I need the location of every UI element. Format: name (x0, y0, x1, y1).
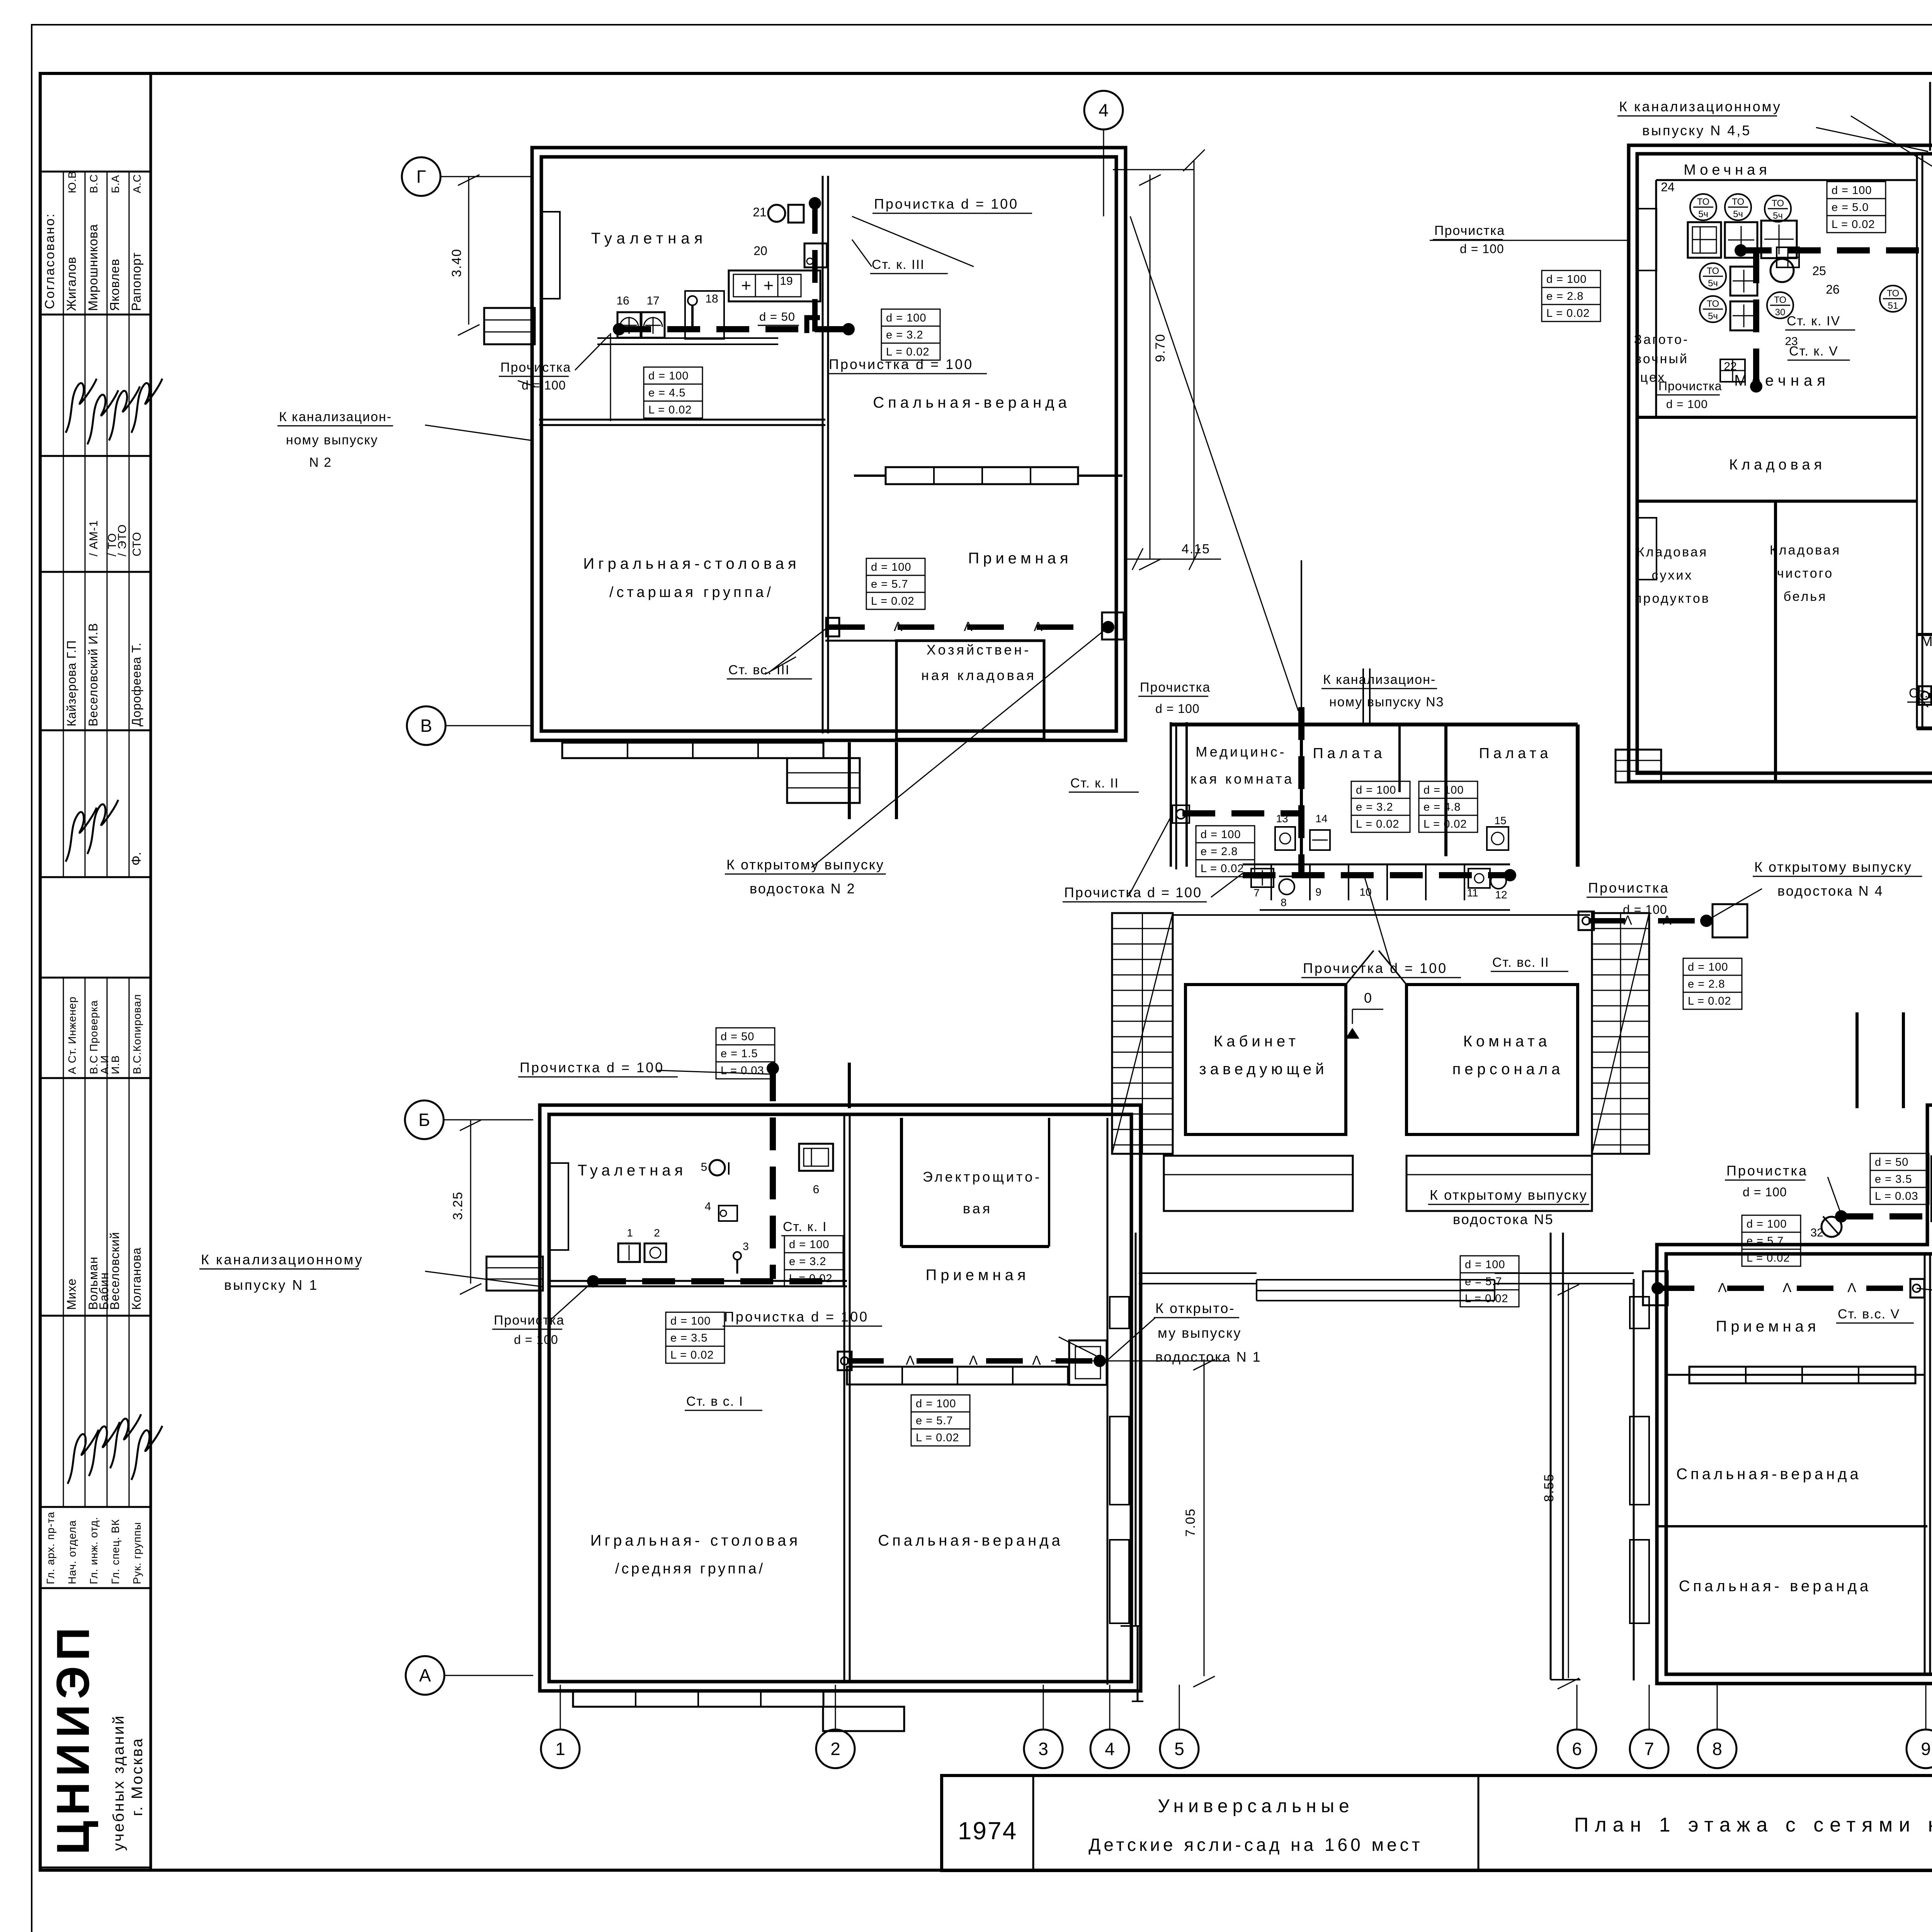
svg-text:e = 4.8: e = 4.8 (1423, 801, 1461, 813)
svg-text:d = 100: d = 100 (1546, 273, 1587, 286)
BR window band wall (1665, 1374, 1925, 1376)
svg-text:9.70: 9.70 (1153, 333, 1168, 362)
svg-text:L = 0.02: L = 0.02 (1546, 307, 1590, 320)
center staff room (1406, 985, 1578, 1134)
svg-text:d = 100: d = 100 (1747, 1218, 1787, 1230)
svg-text:Приемная: Приемная (1716, 1318, 1820, 1335)
TL partition vertical (822, 176, 824, 733)
BL porch left (486, 1257, 543, 1291)
svg-text:6: 6 (813, 1183, 820, 1196)
svg-text:4: 4 (705, 1200, 711, 1213)
svg-text:Λ: Λ (1783, 1281, 1792, 1295)
svg-text:5: 5 (1174, 1739, 1184, 1759)
svg-text:Согласовано:: Согласовано: (43, 213, 57, 309)
svg-text:Λ: Λ (1034, 619, 1043, 634)
svg-text:d = 100: d = 100 (916, 1398, 956, 1410)
svg-text:14: 14 (1315, 813, 1327, 825)
TL storm line St.vs.III (828, 624, 1108, 630)
svg-text:В.С: В.С (88, 174, 100, 193)
TR dry/clean storeroom divider (1774, 501, 1777, 782)
svg-text:d = 100: d = 100 (789, 1238, 830, 1251)
svg-text:e = 3.2: e = 3.2 (886, 329, 923, 341)
svg-text:4: 4 (1105, 1739, 1115, 1759)
svg-text:К открытому выпуску: К открытому выпуску (1430, 1187, 1588, 1203)
svg-text:20: 20 (753, 244, 767, 258)
svg-text:5ч: 5ч (1733, 209, 1743, 219)
svg-text:16: 16 (616, 294, 629, 307)
svg-text:e = 5.7: e = 5.7 (1465, 1276, 1502, 1288)
svg-text:Λ: Λ (964, 619, 973, 634)
svg-text:К канализационному: К канализационному (201, 1252, 364, 1267)
svg-text:Мирошникова: Мирошникова (86, 224, 100, 311)
gallery passage between wings (1257, 1279, 1495, 1281)
svg-text:22: 22 (1724, 360, 1736, 373)
svg-text:В: В (420, 716, 432, 736)
svg-text:L = 0.02: L = 0.02 (1465, 1293, 1509, 1305)
svg-text:d = 100: d = 100 (1666, 398, 1708, 411)
svg-text:2: 2 (654, 1227, 660, 1239)
svg-text:Колганова: Колганова (129, 1247, 143, 1310)
svg-text:L = 0.02: L = 0.02 (916, 1432, 959, 1444)
svg-text:Λ: Λ (1718, 1281, 1727, 1295)
svg-text:учебных зданий: учебных зданий (110, 1714, 127, 1851)
svg-text:L = 0.02: L = 0.02 (871, 595, 915, 607)
svg-text:2: 2 (830, 1739, 840, 1759)
svg-text:19: 19 (780, 275, 793, 287)
pipe data table 4 (1827, 182, 1886, 199)
pipe data table 19 (1742, 1215, 1801, 1232)
equipment circle TO/5ч (1725, 194, 1751, 220)
TR sewer riser left (1753, 250, 1759, 388)
TL window shelf (597, 337, 778, 339)
BL link corridor up (848, 1063, 851, 1108)
svg-text:Прочистка d = 100: Прочистка d = 100 (724, 1309, 869, 1325)
svg-text:ТО: ТО (1697, 197, 1709, 207)
TL bottom window band (562, 743, 823, 758)
svg-text:ному выпуску N3: ному выпуску N3 (1329, 695, 1444, 709)
svg-text:Универсальные: Универсальные (1158, 1796, 1354, 1816)
svg-text:СТО: СТО (131, 532, 143, 556)
svg-text:d = 100: d = 100 (1423, 784, 1464, 796)
BR link corridor up (1855, 1012, 1859, 1108)
svg-text:Медицинс-: Медицинс- (1196, 744, 1286, 760)
svg-text:/ АМ-1: / АМ-1 (87, 520, 100, 556)
bottom title block (942, 1776, 1932, 1871)
svg-text:Кабинет: Кабинет (1214, 1033, 1299, 1050)
center right staircase (1592, 913, 1649, 1154)
svg-text:d = 100: d = 100 (1460, 242, 1504, 256)
equipment circle TO/5ч (1765, 196, 1791, 222)
svg-text:e = 5.7: e = 5.7 (1747, 1235, 1784, 1247)
dim 3.25 left BL (470, 1120, 471, 1284)
svg-text:Веселовский: Веселовский (108, 1232, 122, 1310)
svg-text:Ст. к. I: Ст. к. I (783, 1219, 827, 1234)
svg-text:Спальная- веранда: Спальная- веранда (1679, 1578, 1872, 1595)
leader from prochistka to center riser (1130, 216, 1298, 711)
svg-text:e = 2.8: e = 2.8 (1201, 845, 1238, 858)
svg-text:К канализационному: К канализационному (1619, 99, 1782, 114)
svg-text:7.05: 7.05 (1183, 1508, 1198, 1537)
BL sewer horizontal run (593, 1278, 828, 1284)
svg-text:К канализацион-: К канализацион- (1323, 672, 1436, 687)
svg-text:5ч: 5ч (1708, 278, 1718, 289)
top axis circle 4 (1103, 129, 1104, 216)
svg-text:L = 0.02: L = 0.02 (789, 1272, 833, 1285)
svg-text:И.В: И.В (109, 1055, 121, 1074)
svg-text:Методический кабинет: Методический кабинет (1921, 633, 1932, 649)
TR lotok channel lines (1929, 82, 1931, 151)
svg-text:ТО: ТО (1887, 288, 1899, 299)
svg-text:d = 100: d = 100 (1155, 702, 1200, 716)
dim 8.55 (1568, 1284, 1569, 1678)
svg-text:Комната: Комната (1463, 1033, 1551, 1050)
signatures (squiggles) (66, 379, 97, 433)
svg-text:К канализацион-: К канализацион- (279, 410, 392, 424)
TL bottom porch (787, 758, 860, 803)
svg-text:Кладовая: Кладовая (1729, 457, 1826, 473)
svg-text:Моечная: Моечная (1684, 162, 1771, 178)
BL partition vertical (844, 1115, 845, 1682)
svg-text:6: 6 (1572, 1739, 1582, 1759)
svg-text:Ст. к. III: Ст. к. III (872, 257, 925, 272)
svg-text:г. Москва: г. Москва (129, 1737, 146, 1816)
svg-text:L = 0.02: L = 0.02 (648, 404, 692, 416)
svg-text:План 1 этажа с сетями канализ: План 1 этажа с сетями канализации (1574, 1814, 1932, 1836)
left approval strip table (150, 73, 152, 1870)
svg-text:Прочистка d = 100: Прочистка d = 100 (874, 196, 1019, 212)
svg-text:Ю.В: Ю.В (66, 171, 78, 193)
svg-text:Ф.: Ф. (129, 852, 144, 866)
svg-text:30: 30 (1775, 307, 1786, 318)
bottom axis circles 1-10 (560, 1685, 561, 1730)
center ward partitions (1300, 724, 1303, 856)
svg-text:32: 32 (1810, 1226, 1823, 1239)
TL left wall window niche (541, 212, 560, 299)
svg-text:ТО: ТО (1732, 197, 1744, 207)
svg-text:d = 100: d = 100 (886, 312, 927, 324)
svg-text:N 2: N 2 (309, 455, 332, 470)
TL wc 21 (768, 205, 785, 222)
TR storeroom partition (1637, 500, 1917, 503)
svg-text:L = 0.02: L = 0.02 (1688, 995, 1731, 1007)
svg-text:3.25: 3.25 (451, 1191, 465, 1220)
svg-text:Рапопорт: Рапопорт (129, 252, 143, 311)
svg-text:заведующей: заведующей (1199, 1061, 1328, 1078)
svg-text:Детские ясли-сад на 160 мест: Детские ясли-сад на 160 мест (1088, 1835, 1423, 1855)
svg-text:15: 15 (1494, 815, 1506, 827)
BL electrical room walls (900, 1118, 903, 1247)
svg-text:В.С Проверка: В.С Проверка (88, 1000, 100, 1074)
svg-text:L = 0.03: L = 0.03 (1875, 1190, 1918, 1202)
pipe data table 1 (644, 367, 702, 384)
center sewer riser (1298, 707, 1304, 875)
svg-text:Б.А: Б.А (109, 175, 121, 193)
svg-text:e = 4.5: e = 4.5 (648, 387, 686, 399)
svg-text:ТО: ТО (1772, 198, 1784, 209)
svg-text:Прочистка: Прочистка (1434, 223, 1505, 238)
BL veranda top window band (847, 1367, 1068, 1384)
BR fixtures 32-37 (1821, 1217, 1842, 1237)
svg-text:d = 100: d = 100 (1623, 903, 1667, 917)
svg-text:d = 100: d = 100 (1356, 784, 1396, 796)
svg-text:Кладовая: Кладовая (1770, 543, 1841, 558)
svg-text:выпуску N 4,5: выпуску N 4,5 (1642, 122, 1751, 138)
svg-text:Прочистка: Прочистка (1658, 379, 1722, 393)
center storm line St.vs.II (1588, 918, 1706, 923)
center walkway left (1135, 1233, 1137, 1626)
svg-text:e = 3.2: e = 3.2 (789, 1255, 827, 1268)
svg-text:e = 1.5: e = 1.5 (721, 1048, 758, 1060)
svg-text:Яковлев: Яковлев (107, 259, 122, 311)
TR methodical cabinet walls (1917, 633, 1932, 636)
svg-text:сухих: сухих (1652, 568, 1693, 583)
BL bottom window band (573, 1691, 823, 1707)
TL sewer horizontal run (618, 326, 850, 332)
BL wing outer walls (540, 1105, 1141, 1691)
svg-text:25: 25 (1812, 264, 1826, 278)
center corridor lines (1173, 914, 1590, 916)
svg-text:Хозяйствен-: Хозяйствен- (927, 642, 1031, 658)
TR partition vertical main (1916, 154, 1918, 728)
svg-text:26: 26 (1826, 282, 1840, 296)
center corridor stubs above top wall (1362, 668, 1364, 724)
TR wing outer walls (1629, 145, 1932, 782)
svg-text:ная кладовая: ная кладовая (921, 667, 1036, 683)
svg-text:d = 100: d = 100 (1832, 184, 1872, 197)
svg-text:ТО: ТО (1707, 266, 1719, 276)
svg-text:ЦНИИЭП: ЦНИИЭП (47, 1622, 99, 1855)
svg-text:d = 100: d = 100 (648, 370, 689, 382)
svg-text:d = 100: d = 100 (1743, 1185, 1787, 1199)
aux dim line near 9.70 (1194, 160, 1195, 559)
pipe data table 2 (881, 309, 940, 326)
BL fixtures 1-6 (618, 1243, 640, 1262)
svg-text:L = 0.02: L = 0.02 (670, 1349, 714, 1361)
svg-text:e = 5.7: e = 5.7 (916, 1415, 953, 1427)
svg-text:Палата: Палата (1313, 745, 1386, 762)
svg-text:В.С.Копировал: В.С.Копировал (131, 994, 143, 1074)
svg-text:Прочистка d = 100: Прочистка d = 100 (829, 356, 973, 372)
svg-text:L = 0.03: L = 0.03 (721, 1065, 764, 1077)
TL fixture 20 (804, 243, 827, 267)
svg-text:Гл. инж. отд.: Гл. инж. отд. (88, 1517, 100, 1584)
center wc stalls row (1243, 864, 1510, 866)
svg-text:Спальная-веранда: Спальная-веранда (1676, 1466, 1862, 1483)
svg-text:d = 100: d = 100 (1201, 828, 1241, 841)
svg-text:Ст. вс. IV: Ст. вс. IV (1909, 686, 1932, 701)
equipment circle TO/5ч (1700, 296, 1726, 322)
svg-text:Прочистка d = 100: Прочистка d = 100 (520, 1060, 664, 1075)
BR window band (1689, 1367, 1915, 1383)
left axis circles (440, 176, 533, 177)
svg-text:Гл. спец. ВК: Гл. спец. ВК (109, 1519, 121, 1584)
svg-text:e = 5.7: e = 5.7 (871, 578, 908, 590)
dim 7.05 (1204, 1359, 1205, 1676)
svg-text:Ст. вс. II: Ст. вс. II (1492, 955, 1549, 970)
svg-text:Ст. в с. I: Ст. в с. I (686, 1394, 743, 1409)
svg-text:Ст. в.с. V: Ст. в.с. V (1838, 1307, 1900, 1321)
BR wing outer walls (1657, 1105, 1932, 1684)
svg-text:24: 24 (1661, 180, 1675, 194)
svg-text:Приемная: Приемная (925, 1267, 1029, 1284)
svg-text:Моечная: Моечная (1734, 372, 1830, 389)
svg-text:e = 3.5: e = 3.5 (1875, 1173, 1912, 1185)
svg-text:e = 2.8: e = 2.8 (1546, 290, 1584, 303)
svg-text:Λ: Λ (969, 1353, 978, 1368)
svg-text:Б: Б (418, 1110, 430, 1130)
svg-text:Г: Г (417, 167, 426, 187)
pipe data table 13 (1683, 958, 1742, 975)
dim 9.70 (1150, 175, 1151, 559)
BR storm line St.vs.V (1658, 1286, 1917, 1291)
svg-text:персонала: персонала (1452, 1061, 1564, 1078)
BL storm line St.vs.I (847, 1358, 1100, 1364)
pipe data table 20 (1870, 1153, 1929, 1170)
svg-text:L = 0.02: L = 0.02 (1356, 818, 1400, 830)
svg-text:Прочистка: Прочистка (494, 1313, 565, 1328)
pipe data table 12 (1196, 826, 1255, 843)
svg-text:1: 1 (555, 1739, 565, 1759)
svg-text:продуктов: продуктов (1634, 591, 1710, 606)
svg-text:водостока N 2: водостока N 2 (750, 881, 856, 896)
svg-text:Ст. к. II: Ст. к. II (1070, 776, 1119, 791)
TR bottom porch (1616, 750, 1661, 782)
plain equipment circle TL (1770, 259, 1794, 282)
svg-text:8.55: 8.55 (1542, 1473, 1556, 1502)
pipe data table 14 (1460, 1256, 1519, 1273)
TL toilet bottom wall (539, 419, 825, 421)
svg-text:d = 100: d = 100 (871, 561, 912, 573)
equipment circle TO/51 (1880, 286, 1906, 312)
svg-text:Кладовая: Кладовая (1637, 545, 1708, 560)
center walkway right (1550, 1233, 1552, 1680)
pipe data table 10 (1351, 781, 1410, 798)
svg-text:4.15: 4.15 (1182, 542, 1210, 556)
svg-text:К открытому выпуску: К открытому выпуску (726, 857, 884, 872)
svg-text:Нач. отдела: Нач. отдела (66, 1520, 78, 1584)
svg-text:17: 17 (646, 294, 659, 307)
BL sewer riser St.K.I (770, 1068, 776, 1279)
svg-text:21: 21 (753, 205, 767, 219)
svg-text:Ст. к. IV: Ст. к. IV (1787, 314, 1840, 328)
TL sleeping-veranda window band (886, 467, 1078, 484)
svg-text:7: 7 (1644, 1739, 1654, 1759)
BL bottom porch (823, 1707, 904, 1731)
svg-text:Жигалов: Жигалов (64, 257, 78, 311)
svg-text:d = 100: d = 100 (670, 1315, 711, 1327)
svg-text:23: 23 (1785, 335, 1798, 348)
svg-text:му выпуску: му выпуску (1158, 1325, 1242, 1341)
svg-text:Прочистка: Прочистка (1588, 880, 1670, 896)
pipe data table 16 (784, 1236, 843, 1253)
svg-text:1: 1 (627, 1227, 633, 1239)
TL household storeroom walls (896, 641, 1044, 739)
equipment circle TO/30 (1767, 292, 1793, 318)
svg-text:1974: 1974 (958, 1817, 1017, 1845)
svg-text:Спальная-веранда: Спальная-веранда (873, 394, 1071, 411)
TL fixture 18 (685, 291, 724, 339)
svg-text:белья: белья (1784, 589, 1827, 604)
svg-text:5ч: 5ч (1708, 311, 1718, 321)
TR left wall niches (1638, 209, 1656, 270)
svg-text:e = 5.0: e = 5.0 (1832, 201, 1869, 214)
center fixtures 13 14 15 (1275, 827, 1295, 850)
TR storm line St.vs.IV (1928, 693, 1932, 698)
BR left wall outer line and window niches (1633, 1279, 1635, 1680)
svg-text:Михе: Михе (65, 1278, 78, 1310)
TL wing outer walls (532, 148, 1126, 740)
center left staircase (1112, 913, 1173, 1154)
svg-text:Игральная-столовая: Игральная-столовая (583, 555, 800, 572)
pipe data table 17 (666, 1312, 724, 1329)
BR sewer horizontal top (1840, 1213, 1932, 1219)
TR sewer horizontal run (1739, 247, 1932, 253)
svg-text:13: 13 (1276, 813, 1288, 825)
TL cabinet 19 (729, 270, 820, 301)
svg-text:ному выпуску: ному выпуску (286, 433, 378, 447)
svg-text:водостока N5: водостока N5 (1453, 1211, 1554, 1227)
svg-text:Загото-: Загото- (1634, 332, 1689, 347)
svg-text:чистого: чистого (1777, 566, 1833, 581)
svg-text:Прочистка d = 100: Прочистка d = 100 (1303, 960, 1447, 976)
svg-text:51: 51 (1888, 301, 1898, 311)
svg-text:9: 9 (1921, 1739, 1931, 1759)
svg-text:А Ст. Инженер: А Ст. Инженер (66, 997, 78, 1074)
svg-text:Веселовский И.В: Веселовский И.В (86, 623, 100, 726)
svg-text:А.И: А.И (99, 1055, 111, 1074)
TR washroom inner box (1656, 179, 1916, 181)
svg-text:К открыто-: К открыто- (1155, 1300, 1235, 1316)
dim 3.40 left (468, 177, 469, 325)
center fixtures row 7-12 (1251, 869, 1274, 887)
center medical room walls (1170, 722, 1172, 867)
svg-text:А.С: А.С (131, 174, 143, 193)
center sewer horizontal row (1243, 872, 1510, 878)
BL left wall window niche (550, 1163, 568, 1250)
pipe data table 7 (1542, 270, 1600, 287)
svg-text:e = 3.5: e = 3.5 (670, 1332, 708, 1344)
svg-text:/старшая группа/: /старшая группа/ (609, 584, 774, 600)
svg-text:Игральная- столовая: Игральная- столовая (590, 1532, 801, 1549)
svg-text:3: 3 (1038, 1739, 1048, 1759)
svg-text:5ч: 5ч (1773, 211, 1783, 221)
BL toilet bottom wall (548, 1280, 847, 1282)
svg-text:Кайзерова Г.П: Кайзерова Г.П (65, 640, 78, 726)
svg-text:8: 8 (1281, 896, 1287, 908)
svg-text:L = 0.02: L = 0.02 (1747, 1252, 1790, 1264)
svg-text:Туалетная: Туалетная (578, 1162, 687, 1179)
svg-text:Дорофеева Т.: Дорофеева Т. (129, 642, 143, 726)
center sewer line St.K.II (1182, 810, 1301, 816)
svg-text:Прочистка: Прочистка (1726, 1163, 1808, 1179)
svg-text:вочный: вочный (1634, 352, 1689, 366)
svg-text:Λ: Λ (894, 619, 903, 634)
TL link corridor walls (848, 742, 851, 819)
svg-text:ТО: ТО (1707, 299, 1719, 309)
TL riser St.K.III (812, 201, 818, 332)
svg-text:L = 0.02: L = 0.02 (1201, 862, 1244, 875)
TL fixtures sinks 16 17 (617, 312, 641, 338)
svg-text:вая: вая (963, 1201, 992, 1216)
svg-text:d = 100: d = 100 (1465, 1259, 1505, 1271)
svg-text:Прочистка: Прочистка (500, 360, 571, 375)
equipment circle TO/5ч (1690, 194, 1716, 220)
svg-text:0: 0 (1364, 990, 1372, 1006)
TL porch left (484, 308, 535, 344)
leader lines thin (852, 216, 974, 267)
pipe data table 15 (716, 1028, 775, 1045)
svg-text:18: 18 (705, 293, 718, 305)
